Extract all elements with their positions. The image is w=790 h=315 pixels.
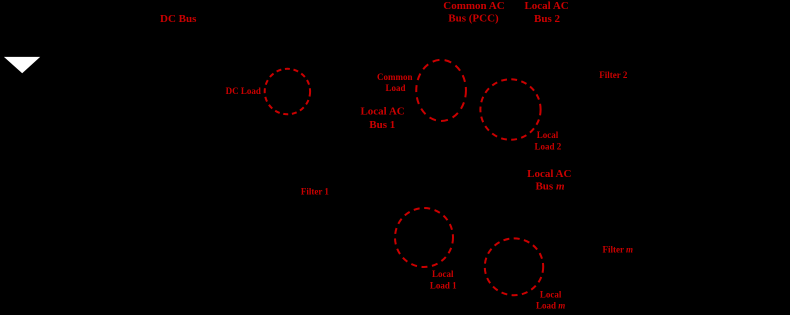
load Local Load 2 label	[535, 130, 562, 152]
node Common AC Bus (PCC) label	[443, 0, 504, 24]
svg-text:Bus 2: Bus 2	[534, 13, 560, 25]
svg-text:Local AC: Local AC	[360, 106, 404, 118]
solar PV panel triangle (white)	[4, 57, 40, 73]
load Local Load m label	[536, 290, 565, 311]
svg-text:Load 2: Load 2	[535, 142, 562, 152]
svg-text:Local AC: Local AC	[524, 0, 568, 12]
svg-text:Local AC: Local AC	[527, 168, 571, 180]
load Local Load 1 boundary circle	[395, 208, 453, 267]
svg-text:Load: Load	[385, 83, 405, 93]
load Local Load 1 label	[430, 269, 457, 291]
svg-text:Bus (PCC): Bus (PCC)	[448, 12, 499, 24]
node Local AC Bus m label	[527, 168, 571, 193]
svg-text:Filter m: Filter m	[602, 244, 633, 254]
svg-text:Common AC: Common AC	[443, 0, 504, 12]
svg-text:Load 1: Load 1	[430, 280, 457, 290]
load Local Load m boundary circle	[485, 238, 543, 295]
svg-text:Filter 1: Filter 1	[301, 186, 330, 196]
svg-text:Local: Local	[537, 130, 559, 140]
svg-text:Bus m: Bus m	[535, 181, 565, 193]
svg-text:Filter 2: Filter 2	[599, 70, 628, 80]
node Local AC Bus 1 label	[360, 106, 404, 131]
svg-text:DC Bus: DC Bus	[160, 13, 197, 25]
svg-text:Load m: Load m	[536, 301, 565, 311]
svg-text:Common: Common	[377, 72, 413, 82]
load DC Load boundary circle	[265, 69, 310, 115]
svg-text:Local: Local	[540, 290, 562, 300]
node Local AC Bus 2 label	[524, 0, 568, 25]
load Local Load 2 boundary circle	[480, 79, 540, 140]
load Common Load label	[377, 72, 413, 93]
load Common Load boundary circle	[416, 60, 466, 121]
svg-text:Local: Local	[432, 269, 454, 279]
svg-text:Bus 1: Bus 1	[369, 119, 395, 131]
svg-text:DC Load: DC Load	[226, 86, 261, 96]
